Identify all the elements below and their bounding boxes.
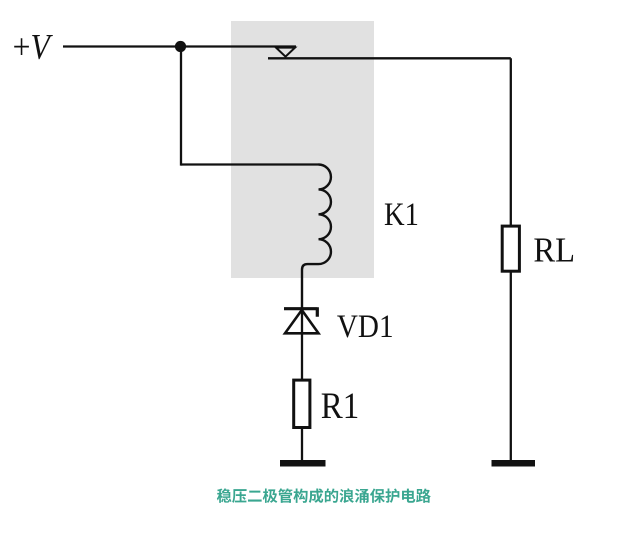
svg-text:RL: RL [533, 232, 575, 270]
wire: +V supply rail [63, 45, 296, 47]
svg-text:VD1: VD1 [337, 307, 394, 344]
wire: through diode down to R1 [301, 310, 303, 379]
wire: switch output to load [268, 57, 511, 59]
ground (right) [492, 460, 536, 467]
zener diode VD1 cathode bar [284, 307, 317, 317]
wire: R1 to ground [301, 429, 303, 461]
caption: 稳压二极管构成的浪涌保护电路 [217, 488, 431, 503]
resistor R1 [294, 380, 310, 427]
inductor coil K1 winding [302, 165, 331, 309]
wire: right branch down to RL [510, 58, 512, 226]
zener diode VD1 triangle [285, 310, 319, 333]
svg-text:+V: +V [13, 28, 54, 67]
wire: to coil [181, 163, 319, 165]
resistor RL [502, 226, 519, 271]
junction node dot [175, 41, 186, 52]
relay contact arm (triangle) [276, 48, 295, 57]
wire: junction down [180, 47, 182, 166]
wire: RL to ground [510, 273, 512, 462]
ground (left) [280, 460, 326, 467]
svg-text:R1: R1 [321, 385, 359, 426]
svg-text:K1: K1 [384, 196, 419, 232]
relay body K1 (shaded box) [231, 21, 374, 278]
